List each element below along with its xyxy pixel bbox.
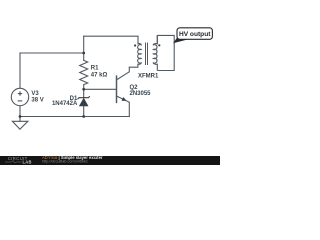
Q2 emitter arrow	[122, 97, 127, 101]
wire D1 bottom lead	[83, 106, 85, 116]
zener diode D1 triangle	[79, 98, 89, 107]
transformer XFMR1 left winding	[138, 36, 142, 64]
wire bottom rail	[20, 116, 129, 118]
voltage source V3 circle	[11, 88, 28, 105]
wire R1 column vertical corner down to zigzag top	[83, 36, 85, 60]
node junction dot R1 top	[82, 52, 85, 55]
svg-text:R1: R1	[91, 65, 99, 71]
svg-text:V3: V3	[31, 91, 39, 97]
ground	[12, 121, 28, 129]
resistor R1 zigzag	[80, 60, 88, 84]
wire V3 top lead	[19, 53, 21, 88]
HV output callout box	[177, 28, 212, 40]
Q2 collector lead	[117, 67, 130, 80]
transformer XFMR1 right winding	[153, 35, 157, 70]
node junction dot base D1	[82, 88, 85, 91]
wire Q2 emitter down to bottom rail	[128, 102, 130, 116]
svg-text:38 V: 38 V	[31, 97, 43, 103]
wire top horizontal to transformer primary	[84, 35, 138, 37]
zener diode D1 cathode bar	[78, 96, 90, 99]
wire secondary loop	[157, 35, 174, 70]
Q2 emitter lead	[117, 96, 130, 102]
V3 plus sign	[18, 91, 22, 95]
wire top-left horizontal V3 to R1 node	[20, 52, 84, 54]
svg-text:XFMR1: XFMR1	[138, 74, 159, 80]
svg-text:HV output: HV output	[179, 31, 211, 38]
transformer phase dot left	[134, 44, 136, 46]
HV output callout pointer	[173, 36, 187, 43]
transformer phase dot right	[158, 44, 160, 46]
wire D1 top lead	[83, 85, 85, 98]
svg-text:2N3055: 2N3055	[130, 91, 152, 97]
transformer core lines	[146, 43, 148, 65]
node junction dot D1 bottom rail	[82, 115, 85, 118]
transistor Q2 base bar	[116, 75, 118, 103]
watermark bar	[0, 156, 220, 165]
wire V3 bottom lead and ground stub	[19, 106, 21, 122]
svg-text:47 kΩ: 47 kΩ	[91, 73, 108, 79]
node junction dot V3 bottom rail	[19, 115, 22, 118]
V3 minus sign	[18, 100, 23, 102]
wire base node to Q2	[84, 88, 117, 90]
svg-text:1N4742A: 1N4742A	[52, 101, 78, 107]
wire Q2 collector to transformer staircase	[129, 64, 138, 67]
svg-text:http://circuitlab.com/c46bkz: http://circuitlab.com/c46bkz	[42, 160, 88, 164]
svg-text:Q2: Q2	[130, 85, 139, 91]
svg-text:LAB: LAB	[23, 160, 32, 165]
